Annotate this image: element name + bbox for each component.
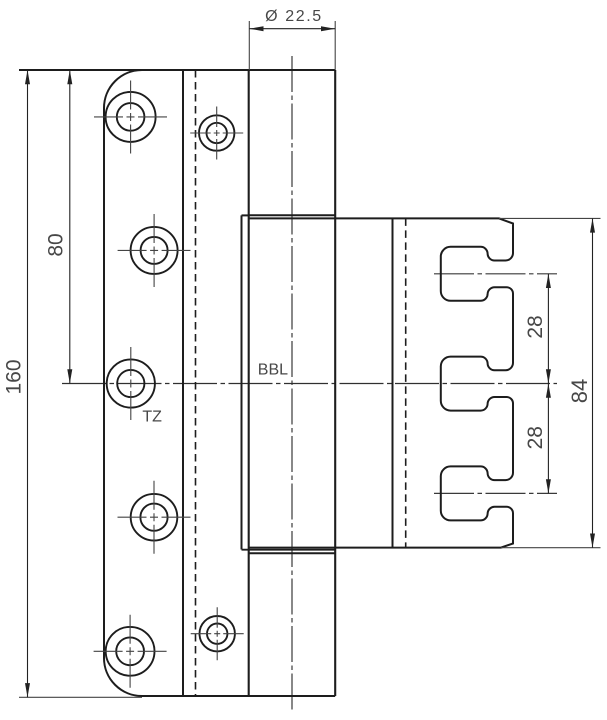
dim 84 bottom extension <box>501 547 601 549</box>
dim 28 top arrow <box>546 274 551 288</box>
svg-text:Ø 22.5: Ø 22.5 <box>265 8 323 25</box>
dim 160 top arrow <box>25 70 30 84</box>
left leaf bottom-left corner arc <box>104 658 142 696</box>
knuckle left edge <box>248 70 250 696</box>
knuckle bottom line of top section <box>249 214 336 216</box>
dim 80 bottom arrow <box>67 369 72 383</box>
frame leaf bend line <box>392 218 394 547</box>
hole 5 inner <box>116 637 144 665</box>
small hole top crosshair <box>190 107 243 160</box>
dim 22.5 line <box>249 28 335 30</box>
slot 1 centerline <box>434 273 557 275</box>
BBL horizontal centerline <box>62 383 557 385</box>
dim 28 middle arrow up <box>546 384 551 398</box>
small hole top outer <box>199 115 234 150</box>
dim 22.5 right arrow <box>321 26 335 31</box>
left leaf top-left corner arc <box>104 70 142 108</box>
dim 22.5 extension lines <box>249 21 335 70</box>
dim 84 top arrow <box>590 218 595 232</box>
knuckle vertical centerline <box>291 56 293 712</box>
svg-text:28: 28 <box>524 426 547 449</box>
hole 3 vertical crosshair <box>130 347 132 420</box>
leaf top edge with left extension <box>19 69 335 71</box>
dim 84 bottom arrow <box>590 534 595 548</box>
hole 5 crosshair <box>94 615 167 688</box>
hole 1 crosshair <box>94 81 167 154</box>
small hole top inner <box>207 123 227 143</box>
frame leaf hidden dashed line <box>405 218 407 547</box>
left leaf left edge <box>103 108 105 658</box>
hole 2 outer <box>131 227 178 274</box>
bottom extension line <box>19 696 142 698</box>
hole 3 inner <box>117 370 144 397</box>
knuckle right edge <box>334 70 336 696</box>
dim 84 line <box>592 218 594 547</box>
svg-text:28: 28 <box>524 315 547 338</box>
small hole bottom inner <box>207 624 227 644</box>
hole 4 inner <box>140 504 167 531</box>
svg-text:TZ: TZ <box>142 409 162 426</box>
frame leaf top step <box>242 214 249 216</box>
hole 2 inner <box>141 237 168 264</box>
svg-text:80: 80 <box>44 233 67 256</box>
dim 22.5 left arrow <box>249 26 263 31</box>
svg-text:84: 84 <box>567 379 592 403</box>
slot 3 centerline <box>434 492 557 494</box>
frame leaf outline with comb slots <box>249 218 513 547</box>
svg-text:160: 160 <box>2 359 25 394</box>
hole 4 outer <box>131 494 178 541</box>
dim 160 line <box>27 70 29 697</box>
small hole bottom outer <box>200 616 235 651</box>
left leaf bend line <box>182 70 184 696</box>
hole 4 crosshair <box>118 481 191 554</box>
dim 28 line <box>547 274 549 494</box>
hole 2 crosshair <box>118 214 191 287</box>
dim 80 line <box>69 70 71 384</box>
hole 1 outer <box>106 92 156 142</box>
frame leaf outer left edge <box>241 215 243 549</box>
left leaf hidden dashed line <box>195 70 197 696</box>
leaf bottom edge <box>142 695 335 697</box>
hole 3 outer <box>107 359 155 407</box>
dim 80 top arrow <box>67 70 72 84</box>
small hole bottom crosshair <box>191 607 244 660</box>
svg-text:BBL: BBL <box>258 362 288 379</box>
hole 1 inner <box>117 103 145 131</box>
dim 28 bottom arrow <box>546 479 551 493</box>
hole 5 outer <box>106 627 155 676</box>
dim 84 top extension <box>499 217 601 219</box>
dim 160 bottom arrow <box>25 683 30 697</box>
dim 28 middle arrow down <box>546 369 551 383</box>
frame leaf bottom double line <box>242 549 336 551</box>
knuckle top line of bottom section <box>249 552 336 554</box>
